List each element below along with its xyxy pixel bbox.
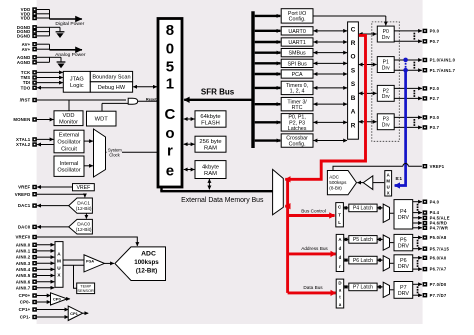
svg-text:DAC1: DAC1 [18,203,31,208]
svg-text:DAC1: DAC1 [77,201,90,207]
svg-text:Reset: Reset [146,97,157,102]
svg-text:Config.: Config. [289,17,306,23]
svg-text:Drv: Drv [382,94,390,100]
svg-text:P7.7/D7: P7.7/D7 [430,293,447,298]
svg-text:MONEN: MONEN [13,117,30,122]
svg-text:0: 0 [166,41,174,58]
svg-text:SENSOR: SENSOR [77,288,94,293]
svg-text:A: A [387,172,390,177]
svg-text:X: X [387,191,390,196]
svg-text:Internal: Internal [60,161,79,167]
svg-text:/RST: /RST [20,98,31,103]
svg-text:Data Bus: Data Bus [303,285,323,290]
svg-text:8:1: 8:1 [396,176,403,181]
svg-text:Drv: Drv [382,122,390,128]
svg-text:8: 8 [166,22,174,39]
svg-text:P7.0/D0: P7.0/D0 [430,282,447,287]
svg-text:r: r [339,264,341,269]
svg-text:(8-Bit): (8-Bit) [329,185,342,190]
svg-text:CP0-: CP0- [20,300,31,305]
svg-text:T: T [338,212,341,217]
svg-text:4kbyte: 4kbyte [202,164,219,170]
svg-text:Oscillator: Oscillator [57,168,80,174]
svg-text:P3.0: P3.0 [430,115,440,120]
svg-text:VREF: VREF [76,185,90,191]
svg-text:P2.0: P2.0 [430,86,440,91]
svg-text:AIN0.5: AIN0.5 [16,273,31,278]
svg-text:M: M [386,178,390,183]
svg-text:Bus Control: Bus Control [301,209,326,214]
svg-text:Drv: Drv [382,65,390,71]
svg-text:d: d [339,255,342,260]
svg-text:r: r [167,143,173,160]
svg-text:L: L [338,220,341,225]
svg-text:(12-Bit): (12-Bit) [76,206,92,212]
svg-text:UART0: UART0 [288,29,305,35]
svg-text:CP1+: CP1+ [19,307,31,312]
svg-text:P5 Latch: P5 Latch [353,237,373,243]
svg-text:DAC0: DAC0 [77,222,90,228]
svg-text:VREF: VREF [18,185,30,190]
svg-text:AIN0.0: AIN0.0 [16,242,31,247]
svg-text:VDD: VDD [62,113,74,119]
svg-text:PCA: PCA [292,72,303,78]
svg-text:(12-Bit): (12-Bit) [76,227,92,233]
svg-text:RAM: RAM [204,171,217,177]
svg-text:U: U [387,185,390,190]
svg-text:DRV: DRV [398,244,410,250]
svg-text:ADC: ADC [329,174,339,179]
svg-text:Monitor: Monitor [59,119,78,125]
svg-text:Clock: Clock [109,152,120,157]
svg-text:VREFD: VREFD [15,192,31,197]
svg-text:External Data Memory Bus: External Data Memory Bus [181,197,264,204]
svg-text:256 byte: 256 byte [199,139,221,145]
svg-text:DGND: DGND [17,34,31,39]
svg-text:AIN0.6: AIN0.6 [16,279,31,284]
svg-text:ADC: ADC [141,250,156,257]
svg-text:B: B [351,95,356,102]
svg-text:JTAG: JTAG [70,77,84,83]
svg-text:C: C [351,26,356,33]
svg-text:5: 5 [166,59,174,76]
svg-text:VREF0: VREF0 [15,235,30,240]
svg-text:AIN0.1: AIN0.1 [16,249,31,254]
svg-text:VDD: VDD [21,16,31,21]
svg-text:P2.7: P2.7 [430,96,440,101]
svg-text:64kbyte: 64kbyte [200,114,220,120]
svg-text:P6.0/A0: P6.0/A0 [430,255,447,260]
svg-text:P6.7/A7: P6.7/A7 [430,267,447,272]
svg-text:Config.: Config. [289,141,306,147]
svg-text:CP0: CP0 [53,297,62,302]
svg-text:R: R [351,122,356,129]
svg-text:S: S [351,67,356,74]
svg-text:Address Bus: Address Bus [301,246,328,251]
svg-text:Oscillator: Oscillator [57,140,80,146]
svg-text:C: C [164,106,175,123]
svg-text:TDO: TDO [21,85,31,90]
svg-text:1, 2, 4: 1, 2, 4 [290,89,305,95]
svg-text:P4 Latch: P4 Latch [353,206,373,212]
svg-text:VREF1: VREF1 [430,164,445,169]
svg-text:O: O [351,54,356,61]
svg-text:CP1: CP1 [70,311,79,316]
svg-text:Boundary Scan: Boundary Scan [92,75,130,81]
svg-text:DAC0: DAC0 [18,225,31,230]
svg-text:DRV: DRV [398,215,410,221]
svg-text:XTAL2: XTAL2 [16,142,31,147]
svg-text:S: S [351,81,356,88]
svg-text:P0.7: P0.7 [430,39,440,44]
svg-text:AV+: AV+ [22,47,31,52]
svg-text:CP0+: CP0+ [19,293,31,298]
svg-text:500ksps: 500ksps [329,180,347,185]
svg-text:SPI Bus: SPI Bus [287,61,307,67]
svg-text:AIN0.7: AIN0.7 [16,285,31,290]
svg-text:Drv: Drv [382,35,390,41]
svg-text:WDT: WDT [95,117,109,123]
svg-text:R: R [351,40,356,47]
svg-text:P1.0/AIN1.0: P1.0/AIN1.0 [430,58,456,63]
svg-text:DRV: DRV [398,291,410,297]
svg-text:Logic: Logic [70,83,84,89]
svg-text:FLASH: FLASH [201,120,220,126]
svg-text:o: o [165,125,174,142]
svg-text:AIN0.2: AIN0.2 [16,255,31,260]
svg-text:Circuit: Circuit [61,146,77,152]
svg-text:Latches: Latches [288,126,307,132]
svg-text:RAM: RAM [204,145,217,151]
svg-text:100ksps: 100ksps [134,259,159,266]
svg-text:P3.7: P3.7 [430,125,440,130]
svg-text:RTC: RTC [292,105,303,111]
svg-text:P7 Latch: P7 Latch [353,285,373,291]
svg-text:DRV: DRV [398,264,410,270]
svg-text:D: D [338,280,341,285]
svg-text:AGND: AGND [17,60,31,65]
svg-text:P0.0: P0.0 [430,29,440,34]
svg-text:SMBus: SMBus [288,51,306,57]
svg-text:A: A [351,109,356,116]
svg-text:P5.7/A15: P5.7/A15 [430,246,450,251]
svg-text:Digital Power: Digital Power [55,21,84,27]
svg-text:External: External [59,133,80,139]
svg-text:SFR Bus: SFR Bus [201,87,235,96]
svg-text:M: M [57,259,61,264]
svg-text:P4.7/WR: P4.7/WR [430,225,449,230]
svg-text:Debug HW: Debug HW [98,85,126,91]
svg-text:P5.0/A8: P5.0/A8 [430,235,447,240]
svg-text:UART1: UART1 [288,40,305,46]
svg-text:(12-Bit): (12-Bit) [136,267,157,274]
svg-text:P1.7/AIN1.7: P1.7/AIN1.7 [430,68,456,73]
svg-text:CP1-: CP1- [20,315,31,320]
svg-text:PGA: PGA [86,259,94,263]
svg-text:e: e [166,162,174,179]
svg-text:d: d [339,246,342,251]
svg-text:1: 1 [166,75,174,92]
svg-text:P6 Latch: P6 Latch [353,258,373,264]
svg-text:AIN0.3: AIN0.3 [16,261,31,266]
svg-text:AIN0.4: AIN0.4 [16,267,31,272]
svg-text:P4.0: P4.0 [430,199,440,204]
